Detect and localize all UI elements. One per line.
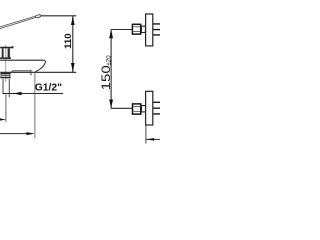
- svg-text:G1/2": G1/2": [35, 83, 62, 94]
- bottom flange: [146, 91, 153, 125]
- spout tip extension line: [34, 73, 36, 139]
- 150 dimension line: [110, 30, 112, 109]
- svg-text:150: 150: [100, 65, 113, 91]
- faucet lever handle: [0, 15, 39, 29]
- 150 arrow down: [109, 100, 113, 109]
- aerator mid line: [1, 75, 10, 77]
- G1/2 extension line right: [8, 79, 10, 97]
- top flange: [146, 14, 153, 46]
- G1/2 extension line left: [2, 79, 4, 94]
- 150 leader bottom: [111, 107, 132, 109]
- 150 leader top: [111, 29, 132, 31]
- bottom-left dimension line: [0, 133, 27, 135]
- knob flange bar: [0, 57, 11, 59]
- underside boss plateau: [11, 71, 31, 72]
- bottom union body: [153, 102, 160, 114]
- cartridge centerline: [5, 45, 7, 82]
- body bottom / datum line: [0, 71, 76, 73]
- aerator side right: [9, 74, 11, 77]
- knob top bar right tick: [12, 46, 13, 48]
- aerator bottom bar: [0, 77, 10, 79]
- boss tick: [30, 70, 32, 76]
- extension line top (lever to 110 dim): [41, 15, 77, 17]
- top union body: [153, 24, 160, 35]
- lever knob end: [35, 14, 41, 18]
- small dimension arrow at outlet centerline: [0, 119, 1, 121]
- bottom-right extension line: [145, 126, 147, 144]
- 110 dimension line: [72, 16, 74, 72]
- bottom nut facet lines: [133, 105, 140, 107]
- bottom-right arrowhead: [146, 138, 154, 141]
- bottom connector: [142, 106, 146, 112]
- 150 arrow up: [109, 30, 113, 39]
- outlet centerline extension: [5, 94, 7, 122]
- bottom-left arrowhead: [27, 132, 35, 135]
- 110 arrow up: [71, 16, 75, 25]
- top connector: [141, 26, 145, 32]
- svg-text:±20: ±20: [106, 55, 113, 66]
- knob leg right: [8, 48, 10, 57]
- knob leg left: [2, 48, 4, 57]
- svg-text:110: 110: [62, 33, 73, 49]
- G1/2 arrowhead: [13, 92, 21, 95]
- top nut facet lines: [133, 26, 140, 28]
- body top line: [0, 59, 44, 61]
- 110 arrow down: [71, 63, 75, 72]
- G1/2 dimension line: [3, 93, 63, 95]
- bottom-right dimension line: [146, 138, 160, 140]
- aerator side left: [0, 74, 2, 77]
- bottom union nut: [133, 104, 141, 114]
- top union nut: [132, 24, 140, 34]
- spout beak curve: [36, 60, 46, 72]
- aerator top bar: [0, 73, 10, 75]
- diverter knob top bar: [0, 47, 13, 49]
